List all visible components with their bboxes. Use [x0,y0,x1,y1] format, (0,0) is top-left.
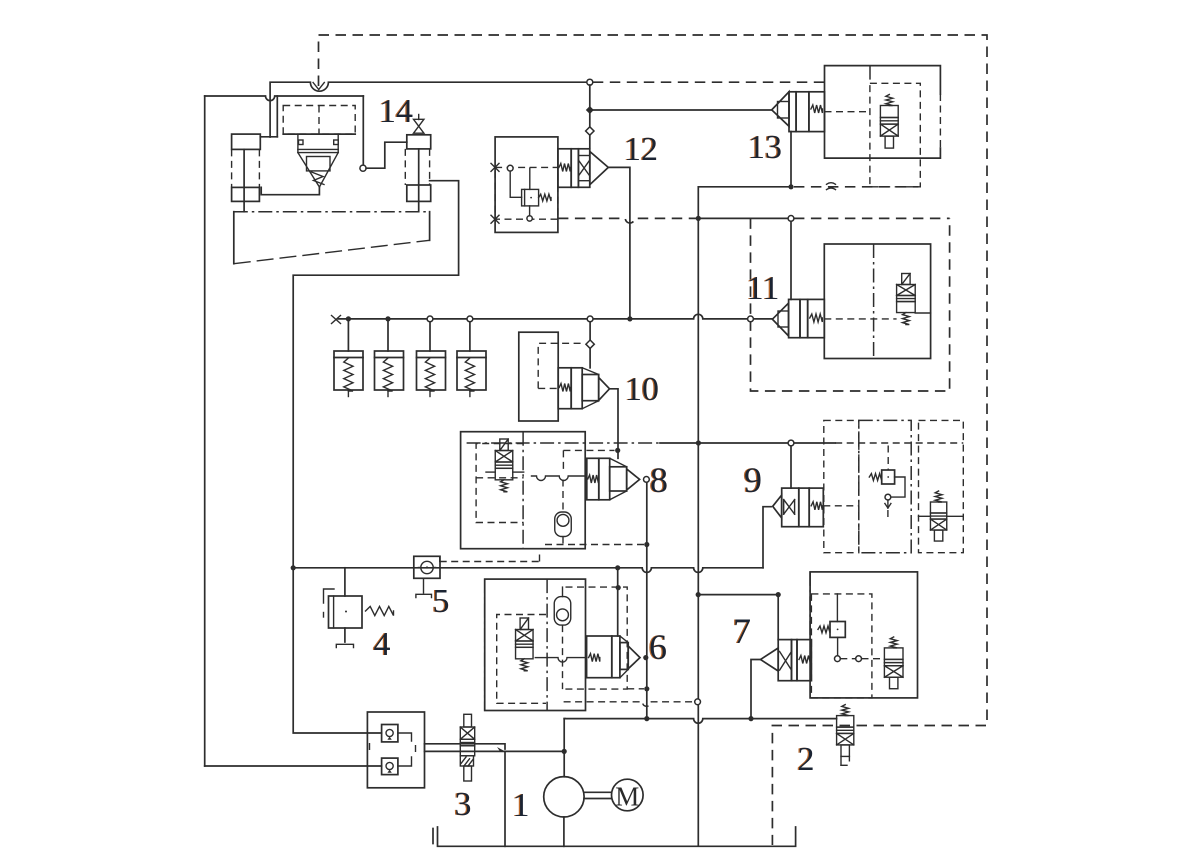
wire left feed to pump 3 upper [293,571,381,733]
pump-motor shaft [584,792,611,798]
svg-text:8: 8 [650,460,668,500]
pilot drain y187 [794,183,919,190]
label 8 [649,460,668,500]
valve 10 spool [558,368,609,409]
svg-text:10: 10 [625,371,659,408]
label 1 [511,787,529,824]
valve 7 spool [761,640,812,681]
valve 13 spool [772,92,825,132]
valve 6 check capsule [554,597,571,626]
motor M circle [612,779,644,811]
valve 11 pilot line [824,318,896,320]
svg-text:M: M [615,782,639,812]
svg-text:4: 4 [374,626,391,663]
svg-text:5: 5 [433,583,450,620]
valve 7 solenoid [884,637,903,689]
svg-text:2: 2 [798,741,815,778]
svg-text:1: 1 [513,787,530,824]
valve 8 solenoid [495,439,513,492]
dashed pilot to valve 13 block [593,81,825,83]
valve 8 check capsule [555,512,572,537]
pilot line y218 left [558,218,698,223]
valve 9 spool [773,488,824,527]
valve 9 feed wire [790,446,792,488]
valve 8 pilot box [476,444,524,523]
wire y567 to valve 6 feed [616,568,621,636]
brake piston [298,134,338,153]
label 11 [745,270,779,307]
double pump 3 block [367,712,424,788]
svg-text:13: 13 [748,129,782,166]
accumulator 1 [334,322,363,397]
right cylinder with shutoff valve 14 [405,115,430,212]
inline valve 3 [460,714,474,781]
node valve 6 output [643,655,648,660]
pump suction drop [563,817,565,846]
valve block 8 housing [461,432,586,549]
wire pump3 output A [425,744,506,752]
valve 11 solenoid [897,274,916,325]
valve 11 solenoid link [915,312,930,314]
valve 7 relief valve [818,594,884,662]
valve 13 solenoid [880,95,898,149]
wire drop to valve 12 [589,85,591,148]
valve block 12 housing [495,137,558,233]
wire node to main riser [698,187,791,845]
valve 8 pilot wire [486,472,587,480]
wire left feed to pump 3 lower [205,765,382,767]
brake spring cone [298,153,338,187]
node y110 diamond [586,106,594,114]
valve 12 pilot box [491,163,558,223]
svg-text:14: 14 [379,93,413,130]
wire valve 10 output [610,389,619,459]
valve 9 solenoid [919,491,964,541]
label 6 [648,627,667,667]
valve 11 spool [772,299,824,337]
wire valve 8 output drop [646,482,648,718]
valve block 7 housing [810,572,917,698]
label 2 [796,741,814,778]
relief valve 4 [324,568,394,648]
svg-text:3: 3 [455,786,472,823]
valve 9 pilot line [823,505,859,507]
valve 6 pilot wire [535,658,586,663]
valve 8 dashed connections [545,450,649,547]
label 10 [624,371,659,408]
main pressure wire y718 [564,716,836,777]
valve 11 feed wire [790,221,792,299]
pressure gauge 5 [414,556,440,597]
node housing outlet [360,165,366,171]
valve 7 pilot box [811,594,872,698]
wire top frame y96 [205,96,364,766]
valve 10 pilot box [538,343,585,388]
platform (inclined mass) [234,212,430,264]
section line y443 [467,442,964,444]
valve 6 pilot box [497,615,546,704]
label 7 [732,611,751,651]
wire valve 13 to node [788,132,793,190]
wire right cylinder to riser [293,181,458,568]
wire drop to tank x505 [504,751,506,846]
check diamond on valve 12 feed [586,127,594,135]
wire pump3 output B [425,749,567,754]
valve 9 relief valve [869,446,905,519]
svg-text:12: 12 [624,131,658,168]
bus junction nodes [346,316,754,322]
wire housing to shutoff valve [366,142,407,168]
label 3 [453,786,471,823]
wire cone to left cylinder [261,187,319,195]
valve 13 pilot box [825,83,921,187]
valve 6 spool [587,636,640,678]
wire y218 node to valve 11 feed [696,216,794,222]
node valve 8 output [644,477,650,483]
accumulator 2 [375,322,404,397]
valve 8 spool [587,458,640,500]
valve 10 feed wire [589,322,591,368]
wire y594 to valve 7 [696,592,781,640]
drain dashed y702 [564,699,701,706]
valve 10 housing [519,332,558,421]
accumulator 4 [457,322,486,397]
valve 11 dashed enclosure [751,218,950,391]
label 14 [378,93,413,130]
wire valve 7 output [751,660,761,719]
valve 13 housing [825,66,941,159]
pilot line y218 right [794,217,950,219]
valve 9 dashed boxes [824,420,964,552]
left cylinder [232,134,261,212]
brake valve 14 housing [260,96,363,165]
valve 6 solenoid [516,618,534,671]
wire top supply y82 [270,82,590,137]
tank [433,827,796,846]
accumulator 3 [417,322,446,397]
node top supply [587,79,593,85]
supply bus y319 [332,314,773,323]
label 13 [747,129,782,166]
label 12 [623,131,658,168]
nodes on y443 [615,440,794,453]
svg-text:11: 11 [747,270,780,307]
pressure wire y567 [291,507,771,573]
wire valve 12 output [608,167,630,319]
label 4 [372,626,390,663]
valve block 6 housing [485,579,586,710]
solenoid valve 2 [837,705,854,766]
wire to valve 13 inlet [590,109,772,111]
valve 10 check diamond [586,340,594,348]
valve 11 housing [824,244,930,359]
valve 12 spool [558,149,608,188]
pump 1 circle [544,777,584,817]
pilot arrow into brake valve 14 [313,83,324,90]
svg-text:7: 7 [733,611,751,651]
label 5 [431,583,449,620]
svg-text:9: 9 [744,460,762,500]
svg-text:6: 6 [649,627,667,667]
valve 6 dashed connections [563,587,650,691]
dashed pilot enclosure border [319,35,988,845]
drain dashed y561 [440,552,540,562]
label 9 [743,460,762,500]
